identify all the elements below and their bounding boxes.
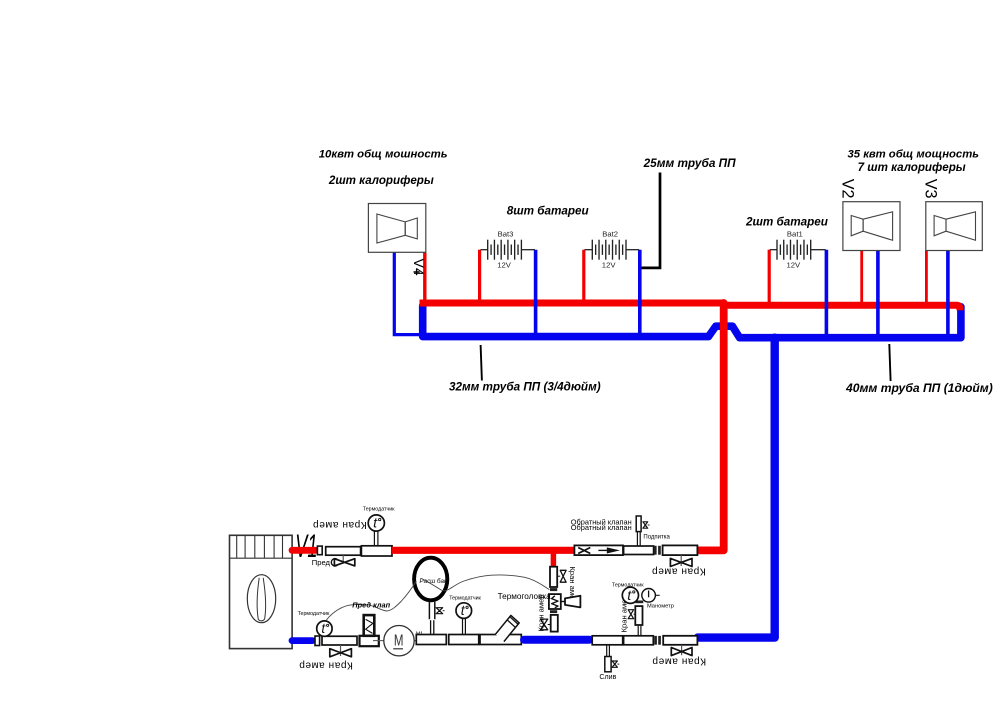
pred valve bowtie	[334, 559, 354, 566]
wire: Bat3 red stub	[478, 250, 481, 301]
bowtie valve below return	[340, 645, 342, 656]
bowtie valve below (blue side near riser)	[681, 645, 683, 655]
wire: Bat2 red stub	[582, 250, 585, 301]
svg-text:2шт калориферы: 2шт калориферы	[328, 174, 434, 187]
battery Bat3 (radiator group)	[481, 249, 488, 251]
thermostatic head (cone)	[561, 601, 565, 603]
svg-text:Кран амер: Кран амер	[299, 659, 353, 670]
svg-text:Bat2: Bat2	[602, 229, 618, 238]
svg-text:Bat1: Bat1	[787, 229, 803, 238]
valve body before blue riser	[663, 636, 697, 645]
drain tee rect	[592, 636, 623, 645]
manometer (pressure gauge)	[642, 589, 656, 603]
bowtie valve below (red side near riser)	[680, 555, 682, 566]
wire: V3 red stub	[925, 251, 928, 304]
thermo sensor on supply	[361, 546, 392, 556]
svg-text:Обратный клапан: Обратный клапан	[571, 523, 632, 532]
leader line for 25mm pipe label	[641, 173, 660, 268]
svg-text:M: M	[394, 630, 404, 648]
wire: Bat1 blue stub	[825, 250, 829, 335]
svg-text:2шт батареи: 2шт батареи	[745, 216, 828, 229]
valve body on return	[322, 636, 357, 645]
thermo sensor (middle)	[449, 635, 479, 645]
svg-text:Кран амер: Кран амер	[536, 594, 545, 631]
heater V3 (calorifier box with fan symbol)	[926, 202, 983, 251]
wire: red supply pipe to check valve	[392, 547, 575, 554]
wire: blue drop from return main to boiler return (right loop)	[698, 338, 775, 638]
wire: blue return main (32/40mm) with hop over red riser	[423, 306, 961, 338]
battery Bat2 (radiator group)	[585, 249, 593, 251]
ball valve with handle	[480, 635, 521, 645]
fitting after check valve	[624, 546, 654, 555]
manometer/sensor branch	[637, 626, 639, 636]
drain (Sliv) branch	[606, 645, 608, 657]
svg-text:10квт общ мошность: 10квт общ мошность	[319, 149, 448, 161]
svg-text:7 шт калориферы: 7 шт калориферы	[858, 161, 966, 174]
svg-text:Пред: Пред	[312, 558, 331, 567]
fitting M1 rect	[416, 635, 446, 645]
wire: V3 blue stub	[946, 251, 950, 336]
battery Bat1 (radiator group)	[770, 249, 777, 251]
wire: V4 blue return line	[394, 252, 420, 334]
svg-text:35 квт общ мощность: 35 квт общ мощность	[848, 148, 980, 160]
wire: red riser from boiler supply to main	[697, 303, 723, 550]
wire: blue return pipe (bypass tee section)	[524, 636, 590, 644]
heater V4 (calorifier box with fan symbol)	[368, 204, 425, 253]
svg-text:V3: V3	[922, 179, 940, 199]
svg-text:Подпитка: Подпитка	[643, 535, 670, 541]
svg-text:12V: 12V	[497, 260, 512, 269]
wire: blue boiler return stub	[292, 637, 313, 644]
svg-text:Термодатчик: Термодатчик	[363, 506, 395, 512]
pipe union fitting	[315, 636, 320, 646]
svg-text:32мм труба ПП (3/4дюйм): 32мм труба ПП (3/4дюйм)	[449, 381, 601, 394]
union bar	[550, 588, 557, 591]
svg-text:12V: 12V	[787, 260, 802, 269]
leader curve: capillary from tank to thermostatic valve	[421, 575, 550, 591]
union bar	[550, 610, 557, 613]
svg-text:Пред клап: Пред клап	[352, 601, 390, 610]
pred valve handle circle	[331, 559, 338, 566]
wire: red tee drop to bypass chain	[551, 552, 557, 565]
svg-text:Кран амер: Кран амер	[312, 519, 366, 530]
pump M (circulation pump)	[373, 640, 384, 642]
svg-text:Термодатчик: Термодатчик	[612, 583, 644, 589]
wire: V2 blue stub	[876, 251, 880, 336]
dirt filter (strainer)	[360, 636, 379, 646]
svg-text:Bat3: Bat3	[498, 229, 514, 238]
svg-text:12V: 12V	[602, 260, 617, 269]
junction cross mark at V4 feed	[414, 269, 420, 275]
svg-text:25мм труба ПП: 25мм труба ПП	[643, 156, 737, 170]
expansion tank (Rassh bak)	[414, 558, 447, 601]
bypass valve (vertical, with union)	[550, 567, 557, 587]
svg-text:8шт батареи: 8шт батареи	[507, 204, 589, 217]
valve body on supply (Kran amer)	[326, 547, 361, 556]
heater V2 (calorifier box with fan symbol)	[843, 202, 900, 251]
svg-text:Кран амер: Кран амер	[651, 566, 705, 577]
svg-text:V2: V2	[839, 179, 857, 199]
check valve (obratny klapan)	[574, 545, 623, 555]
pipe union fitting	[317, 546, 322, 555]
svg-text:Термодатчик: Термодатчик	[449, 596, 481, 602]
expansion tank stem	[428, 602, 430, 620]
label: 32mm PP pipe with leader	[481, 345, 482, 381]
union bar	[635, 601, 643, 604]
wire: red supply main left segment	[420, 300, 726, 307]
svg-text:Термодатчик: Термодатчик	[298, 611, 330, 617]
thermo sensor on return	[317, 621, 332, 636]
valve body before riser	[663, 545, 698, 555]
svg-text:Слив: Слив	[599, 673, 616, 681]
wire: V4 red feed line	[423, 252, 426, 300]
wire: V2 red stub	[860, 251, 863, 304]
svg-text:40мм труба ПП (1дюйм): 40мм труба ПП (1дюйм)	[845, 381, 993, 395]
make-up water branch (Podpitka)	[636, 532, 638, 546]
wire: Bat1 red stub	[768, 250, 771, 303]
svg-text:V4: V4	[411, 259, 427, 276]
svg-text:Манометр: Манометр	[647, 604, 674, 610]
label: 40mm PP pipe with leader	[889, 344, 890, 381]
wire: Bat3 blue stub	[534, 250, 538, 334]
wire: red boiler supply stub	[292, 547, 316, 554]
lower bypass valve (vertical)	[551, 615, 558, 632]
boiler flame ellipse	[247, 575, 275, 623]
wire: red supply main right segment with end elbow	[720, 305, 960, 310]
manometer tee rect	[624, 636, 654, 645]
boiler body	[230, 535, 293, 648]
pred valve stem	[342, 555, 344, 562]
thermostatic valve body with spring	[549, 594, 561, 609]
leader curve: Pred klap label	[326, 581, 416, 621]
svg-text:Кран амер: Кран амер	[652, 656, 706, 667]
wire: Bat2 blue stub	[638, 250, 642, 334]
